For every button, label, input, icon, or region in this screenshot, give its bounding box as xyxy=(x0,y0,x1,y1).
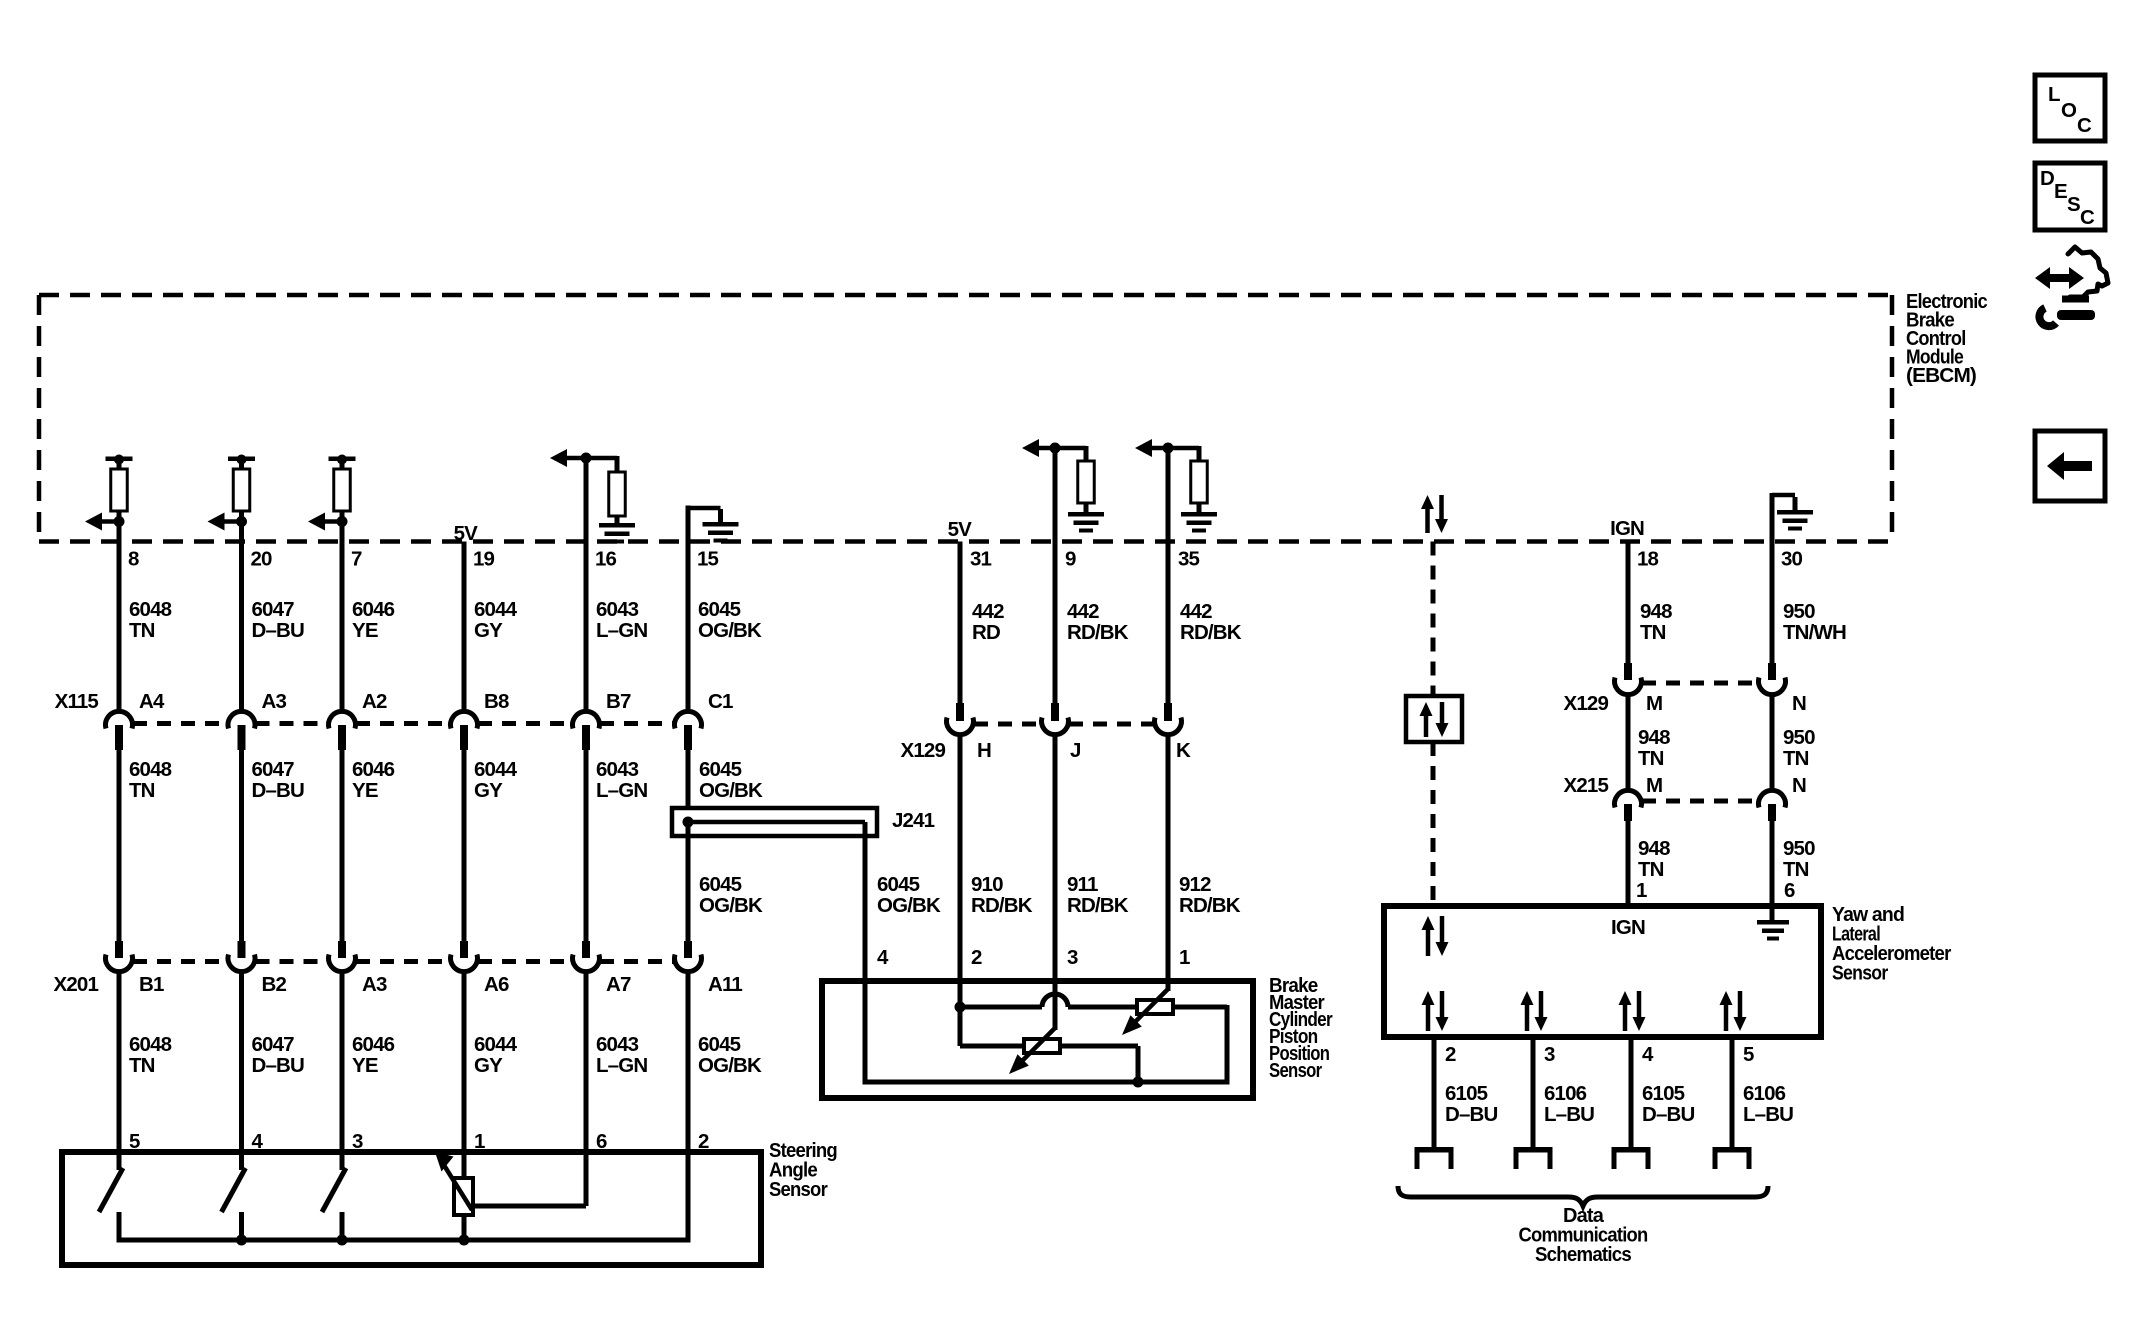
svg-text:RD/BK: RD/BK xyxy=(1067,894,1129,917)
svg-text:950: 950 xyxy=(1783,726,1815,749)
resistor pull-up on pin 7 (inside EBCM) xyxy=(329,457,356,462)
svg-text:GY: GY xyxy=(474,619,503,642)
svg-text:TN: TN xyxy=(1638,858,1664,881)
svg-text:948: 948 xyxy=(1638,726,1670,749)
wire 6045 OG/BK (J241 to X201 A11) xyxy=(686,822,691,943)
svg-text:D–BU: D–BU xyxy=(252,1054,304,1077)
X201 connector dashed body line xyxy=(133,959,228,964)
ground (pin 15) xyxy=(718,509,723,522)
svg-text:S: S xyxy=(2067,193,2080,216)
svg-text:15: 15 xyxy=(697,548,719,571)
svg-text:7: 7 xyxy=(351,548,362,571)
svg-text:4: 4 xyxy=(1642,1043,1654,1066)
svg-text:6106: 6106 xyxy=(1743,1082,1786,1105)
wire 6045 OG/BK (pin 15 to X115 C1) xyxy=(686,506,691,713)
wire 6106 L-BU (accelerometer pin 5) xyxy=(1730,1037,1735,1150)
svg-text:6046: 6046 xyxy=(352,758,395,781)
connector X129 (H J K) xyxy=(956,703,964,721)
svg-text:6045: 6045 xyxy=(699,873,742,896)
svg-text:16: 16 xyxy=(595,548,617,571)
svg-text:A2: A2 xyxy=(362,690,387,713)
svg-text:RD/BK: RD/BK xyxy=(1180,621,1242,644)
svg-text:D–BU: D–BU xyxy=(1642,1103,1694,1126)
svg-text:6048: 6048 xyxy=(129,598,172,621)
junction dot at J241 xyxy=(683,817,694,828)
ground hook pin 15 xyxy=(686,506,691,546)
svg-text:A4: A4 xyxy=(139,690,165,713)
wiring repair icon (double arrow, outline, wrench) xyxy=(2035,267,2084,289)
svg-text:L–BU: L–BU xyxy=(1743,1103,1793,1126)
svg-text:442: 442 xyxy=(1180,600,1212,623)
internal right riser xyxy=(1225,1005,1230,1085)
svg-text:TN: TN xyxy=(1640,621,1666,644)
wiper wire pin 6 (inside sensor) xyxy=(584,1152,589,1206)
svg-text:X129: X129 xyxy=(1564,692,1609,715)
svg-text:8: 8 xyxy=(128,548,139,571)
svg-text:TN: TN xyxy=(129,619,155,642)
ground (pin 9 resistor) xyxy=(1068,512,1104,517)
serial data arrows (accelerometer pin 4) xyxy=(1623,1003,1628,1031)
svg-text:RD: RD xyxy=(972,621,1000,644)
svg-text:A6: A6 xyxy=(484,973,509,996)
svg-text:OG/BK: OG/BK xyxy=(699,894,763,917)
Brake Master Cylinder Piston Position Sensor box xyxy=(822,981,1253,1098)
svg-text:2: 2 xyxy=(971,946,982,969)
svg-text:Schematics: Schematics xyxy=(1535,1243,1631,1266)
wire 950 TN (X215 N to accelerometer pin 6) xyxy=(1770,821,1775,909)
wire 6047 D-BU (X201 B2 to sensor pin 4) xyxy=(239,971,244,1155)
wire 6045 OG/BK branch (J241 to brake sensor pin 4) xyxy=(863,822,868,984)
ground (pin 16 resistor) xyxy=(599,523,635,528)
Steering Angle Sensor box xyxy=(62,1152,761,1265)
svg-text:RD/BK: RD/BK xyxy=(1067,621,1129,644)
resistor pull-up on pin 20 (inside EBCM) xyxy=(228,457,255,462)
svg-text:J241: J241 xyxy=(892,809,935,832)
internal wire pin2 down to pot2 xyxy=(958,981,963,1046)
junction dot on bus xyxy=(1133,1077,1144,1088)
svg-text:950: 950 xyxy=(1783,600,1815,623)
svg-text:5: 5 xyxy=(1743,1043,1754,1066)
svg-text:N: N xyxy=(1792,774,1806,797)
svg-text:TN: TN xyxy=(1638,747,1664,770)
wire pin 4 to internal bus xyxy=(863,984,868,1085)
svg-text:6047: 6047 xyxy=(252,758,295,781)
svg-text:6105: 6105 xyxy=(1445,1082,1488,1105)
ground (pin 35 resistor) xyxy=(1181,512,1217,517)
svg-text:YE: YE xyxy=(352,1054,378,1077)
svg-text:6047: 6047 xyxy=(252,598,295,621)
svg-text:6043: 6043 xyxy=(596,1033,639,1056)
svg-text:A11: A11 xyxy=(708,973,742,996)
wire 6048 TN (pin 8 to X115 A4) xyxy=(117,524,122,712)
connector X201 (B1 B2 A3 A6 A7 A11) xyxy=(115,941,123,958)
ground (inside accelerometer) xyxy=(1770,906,1775,920)
internal bus (brake sensor) xyxy=(865,1080,1227,1085)
signal arrow pin 16 xyxy=(565,456,586,461)
wiper arrow pin 1 through pot1 xyxy=(1166,984,1171,991)
svg-text:6046: 6046 xyxy=(352,598,395,621)
sensor internal bus xyxy=(119,1238,688,1243)
wire 6044 GY (pin 19 to X115 B8) xyxy=(462,542,467,713)
off-page connector (pin 3 wire) xyxy=(1514,1147,1553,1153)
svg-text:6: 6 xyxy=(1784,879,1795,902)
svg-text:6045: 6045 xyxy=(877,873,920,896)
wire 6046 YE (pin 7 to X115 A2) xyxy=(340,524,345,712)
wire 442 RD/BK (pin 35 to X129 K) xyxy=(1166,448,1171,705)
svg-text:D: D xyxy=(2040,167,2054,190)
serial data dashed wire (EBCM to accelerometer) xyxy=(1431,542,1436,699)
svg-text:TN: TN xyxy=(129,779,155,802)
svg-text:912: 912 xyxy=(1179,873,1211,896)
svg-text:6044: 6044 xyxy=(474,598,518,621)
Electronic Brake Control Module (EBCM) dashed box xyxy=(39,293,1892,298)
svg-text:A3: A3 xyxy=(362,973,387,996)
svg-text:2: 2 xyxy=(1445,1043,1456,1066)
svg-text:18: 18 xyxy=(1637,548,1659,571)
resistor to ground pin 16 xyxy=(586,456,617,461)
svg-text:YE: YE xyxy=(352,779,378,802)
connector X129 (M N) xyxy=(1624,663,1632,680)
wire 6044 GY (X115 B8 to X201 A6) xyxy=(462,750,467,943)
svg-text:6048: 6048 xyxy=(129,758,172,781)
svg-text:D–BU: D–BU xyxy=(252,619,304,642)
svg-text:X115: X115 xyxy=(55,690,99,713)
X115 connector dashed body line xyxy=(133,721,228,726)
off-page connector (pin 4 wire) xyxy=(1612,1147,1651,1153)
svg-text:6043: 6043 xyxy=(596,598,639,621)
svg-text:L–BU: L–BU xyxy=(1544,1103,1594,1126)
svg-text:OG/BK: OG/BK xyxy=(877,894,941,917)
svg-text:1: 1 xyxy=(1179,946,1190,969)
svg-text:IGN: IGN xyxy=(1611,916,1645,939)
wire 6047 D-BU (X115 A3 to X201 B2) xyxy=(239,750,244,943)
wire 6105 D-BU (accelerometer pin 2) xyxy=(1432,1037,1437,1150)
wire 6048 TN (X201 B1 to sensor pin 5) xyxy=(117,971,122,1155)
svg-text:Sensor: Sensor xyxy=(1269,1059,1322,1082)
svg-text:OG/BK: OG/BK xyxy=(698,619,762,642)
back arrow icon box xyxy=(2035,431,2105,501)
svg-text:A7: A7 xyxy=(606,973,631,996)
junction dots on sensor bus xyxy=(236,1235,247,1246)
signal arrow pin 9 xyxy=(1037,446,1055,451)
serial data dashed wire (lower) xyxy=(1431,742,1436,908)
signal arrow pin 35 xyxy=(1150,446,1168,451)
svg-text:TN: TN xyxy=(1783,747,1809,770)
wire 911 RD/BK (X129 J to pin 3) xyxy=(1053,735,1058,984)
wire 6045 OG/BK (X115 C1 to J241) xyxy=(686,750,691,822)
svg-text:5V: 5V xyxy=(948,518,973,541)
svg-text:L–GN: L–GN xyxy=(596,1054,647,1077)
svg-text:GY: GY xyxy=(474,1054,503,1077)
svg-text:TN: TN xyxy=(1783,858,1809,881)
wire 950 TN/WH (pin 30 to X129 N) xyxy=(1770,542,1775,666)
svg-text:X129: X129 xyxy=(901,739,946,762)
svg-text:6105: 6105 xyxy=(1642,1082,1685,1105)
Yaw and Lateral Accelerometer Sensor box xyxy=(1384,906,1821,1037)
serial data arrows (accelerometer pin 2) xyxy=(1426,1003,1431,1031)
svg-text:3: 3 xyxy=(1067,946,1078,969)
switch contact pin 3 xyxy=(340,1152,345,1170)
wire 6047 D-BU (pin 20 to X115 A3) xyxy=(239,524,244,712)
svg-text:6106: 6106 xyxy=(1544,1082,1587,1105)
wire 948 TN (X215 M to accelerometer pin 1) xyxy=(1626,821,1631,909)
potentiometer 2 (brake sensor) xyxy=(1024,1039,1060,1053)
svg-text:911: 911 xyxy=(1067,873,1098,896)
svg-text:M: M xyxy=(1646,774,1662,797)
svg-text:RD/BK: RD/BK xyxy=(1179,894,1241,917)
svg-text:948: 948 xyxy=(1638,837,1670,860)
X129 HJK dashed body line xyxy=(974,722,1041,727)
serial data connector box xyxy=(1406,696,1462,742)
X129 MN dashed body line xyxy=(1642,681,1758,686)
resistor to ground pin 35 xyxy=(1168,446,1199,451)
svg-text:B2: B2 xyxy=(262,973,287,996)
svg-text:6047: 6047 xyxy=(252,1033,295,1056)
serial data arrows (box) xyxy=(1424,714,1429,737)
wire 948 TN (X129 M to X215 M) xyxy=(1626,695,1631,792)
svg-text:J: J xyxy=(1070,739,1081,762)
svg-text:N: N xyxy=(1792,692,1806,715)
connector X215 (M N) xyxy=(1615,790,1642,807)
svg-text:B8: B8 xyxy=(484,690,509,713)
off-page connector (pin 2 wire) xyxy=(1415,1147,1454,1153)
svg-text:6044: 6044 xyxy=(474,1033,518,1056)
wiper arrow pin 3 through pot2 xyxy=(1053,984,1058,1030)
svg-text:YE: YE xyxy=(352,619,378,642)
svg-text:D–BU: D–BU xyxy=(1445,1103,1497,1126)
wire 910 RD/BK (X129 H to pin 2) xyxy=(958,735,963,984)
svg-text:O: O xyxy=(2061,99,2077,122)
off-page connector (pin 5 wire) xyxy=(1713,1147,1752,1153)
serial data arrows (accelerometer top) xyxy=(1426,928,1431,956)
splice J241 xyxy=(672,808,877,836)
pot1 to right riser xyxy=(1173,1005,1227,1010)
wire 6048 TN (X115 A4 to X201 B1) xyxy=(117,750,122,943)
svg-text:Sensor: Sensor xyxy=(769,1178,828,1201)
connector X115 (A4 A3 A2 B8 B7 C1) xyxy=(105,711,132,728)
svg-text:6044: 6044 xyxy=(474,758,518,781)
svg-text:910: 910 xyxy=(971,873,1003,896)
svg-text:TN: TN xyxy=(129,1054,155,1077)
LOC icon box xyxy=(2035,75,2105,141)
wire 6043 L-GN (pin 16 to X115 B7) xyxy=(584,458,589,712)
svg-text:950: 950 xyxy=(1783,837,1815,860)
svg-text:TN/WH: TN/WH xyxy=(1783,621,1846,644)
svg-text:RD/BK: RD/BK xyxy=(971,894,1033,917)
svg-text:6045: 6045 xyxy=(698,1033,741,1056)
potentiometer (steering angle sensor) xyxy=(462,1152,467,1178)
svg-text:L–GN: L–GN xyxy=(596,779,647,802)
DESC icon box xyxy=(2035,163,2105,230)
svg-text:6048: 6048 xyxy=(129,1033,172,1056)
resistor pull-up on pin 8 (inside EBCM) xyxy=(106,457,133,462)
svg-text:6045: 6045 xyxy=(698,598,741,621)
X215 dashed body line xyxy=(1642,799,1758,804)
wire 950 TN (X129 N to X215 N) xyxy=(1770,695,1775,792)
pot2 right to bus xyxy=(1060,1044,1138,1049)
wire 948 TN (pin 18 to X129 M) xyxy=(1626,542,1631,666)
svg-text:OG/BK: OG/BK xyxy=(699,779,763,802)
svg-text:30: 30 xyxy=(1781,548,1803,571)
svg-text:C1: C1 xyxy=(708,690,733,713)
svg-text:31: 31 xyxy=(970,548,992,571)
svg-text:GY: GY xyxy=(474,779,503,802)
svg-text:442: 442 xyxy=(972,600,1004,623)
svg-text:IGN: IGN xyxy=(1610,517,1644,540)
svg-text:948: 948 xyxy=(1640,600,1672,623)
serial data arrows (accelerometer pin 3) xyxy=(1525,1003,1530,1031)
svg-text:442: 442 xyxy=(1067,600,1099,623)
svg-text:(EBCM): (EBCM) xyxy=(1906,364,1976,387)
svg-text:20: 20 xyxy=(251,548,273,571)
svg-text:E: E xyxy=(2054,180,2067,203)
svg-text:H: H xyxy=(977,739,991,762)
svg-text:OG/BK: OG/BK xyxy=(698,1054,762,1077)
svg-text:A3: A3 xyxy=(262,690,287,713)
wire 6044 GY (X201 A6 to sensor pin 1) xyxy=(462,971,467,1155)
ground (pin 30) xyxy=(1793,497,1798,510)
svg-text:M: M xyxy=(1646,692,1662,715)
wire 6105 D-BU (accelerometer pin 4) xyxy=(1629,1037,1634,1150)
wire 6046 YE (X201 A3 to sensor pin 3) xyxy=(340,971,345,1155)
serial data arrows (accelerometer pin 5) xyxy=(1724,1003,1729,1031)
wire 6043 L-GN (X201 A7 to sensor pin 6) xyxy=(584,971,589,1155)
svg-text:19: 19 xyxy=(473,548,495,571)
svg-text:L: L xyxy=(2048,83,2060,106)
resistor to ground pin 9 xyxy=(1055,446,1086,451)
svg-text:Sensor: Sensor xyxy=(1832,962,1888,985)
switch contact pin 4 xyxy=(239,1152,244,1170)
wire 6106 L-BU (accelerometer pin 3) xyxy=(1531,1037,1536,1150)
wire 6046 YE (X115 A2 to X201 A3) xyxy=(340,750,345,943)
svg-text:D–BU: D–BU xyxy=(252,779,304,802)
svg-text:X201: X201 xyxy=(54,973,99,996)
svg-text:3: 3 xyxy=(1544,1043,1555,1066)
serial data arrows (EBCM, CAN) xyxy=(1425,507,1430,533)
wire 6045 OG/BK (X201 A11 to sensor pin 2) xyxy=(686,971,691,1155)
wire 6043 L-GN (X115 B7 to X201 A7) xyxy=(584,750,589,943)
switch contact pin 5 xyxy=(117,1152,122,1170)
svg-text:C: C xyxy=(2077,114,2092,137)
wire 442 RD/BK (pin 9 to X129 J) xyxy=(1053,448,1058,705)
svg-text:35: 35 xyxy=(1178,548,1200,571)
svg-text:B1: B1 xyxy=(139,973,164,996)
svg-text:4: 4 xyxy=(877,946,889,969)
svg-text:B7: B7 xyxy=(606,690,631,713)
junction dot pin2 node xyxy=(955,1002,966,1013)
svg-text:L–GN: L–GN xyxy=(596,619,647,642)
svg-text:9: 9 xyxy=(1065,548,1076,571)
svg-text:1: 1 xyxy=(1636,879,1647,902)
wire 442 RD (pin 31 to X129 H) xyxy=(958,542,963,706)
wire pin 2 (inside sensor) xyxy=(686,1152,691,1243)
svg-text:K: K xyxy=(1176,739,1191,762)
wire 912 RD/BK (X129 K to pin 1) xyxy=(1166,735,1171,984)
svg-text:6045: 6045 xyxy=(699,758,742,781)
potentiometer 1 (brake sensor) xyxy=(1137,1000,1173,1014)
svg-text:6043: 6043 xyxy=(596,758,639,781)
svg-text:X215: X215 xyxy=(1564,774,1609,797)
svg-text:C: C xyxy=(2080,206,2095,229)
ground hook pin 30 xyxy=(1770,493,1775,542)
brace (data communication) xyxy=(1398,1186,1768,1206)
svg-text:6046: 6046 xyxy=(352,1033,395,1056)
internal wire pin2 to pot1 with hop over wire 911 xyxy=(960,1005,1042,1010)
